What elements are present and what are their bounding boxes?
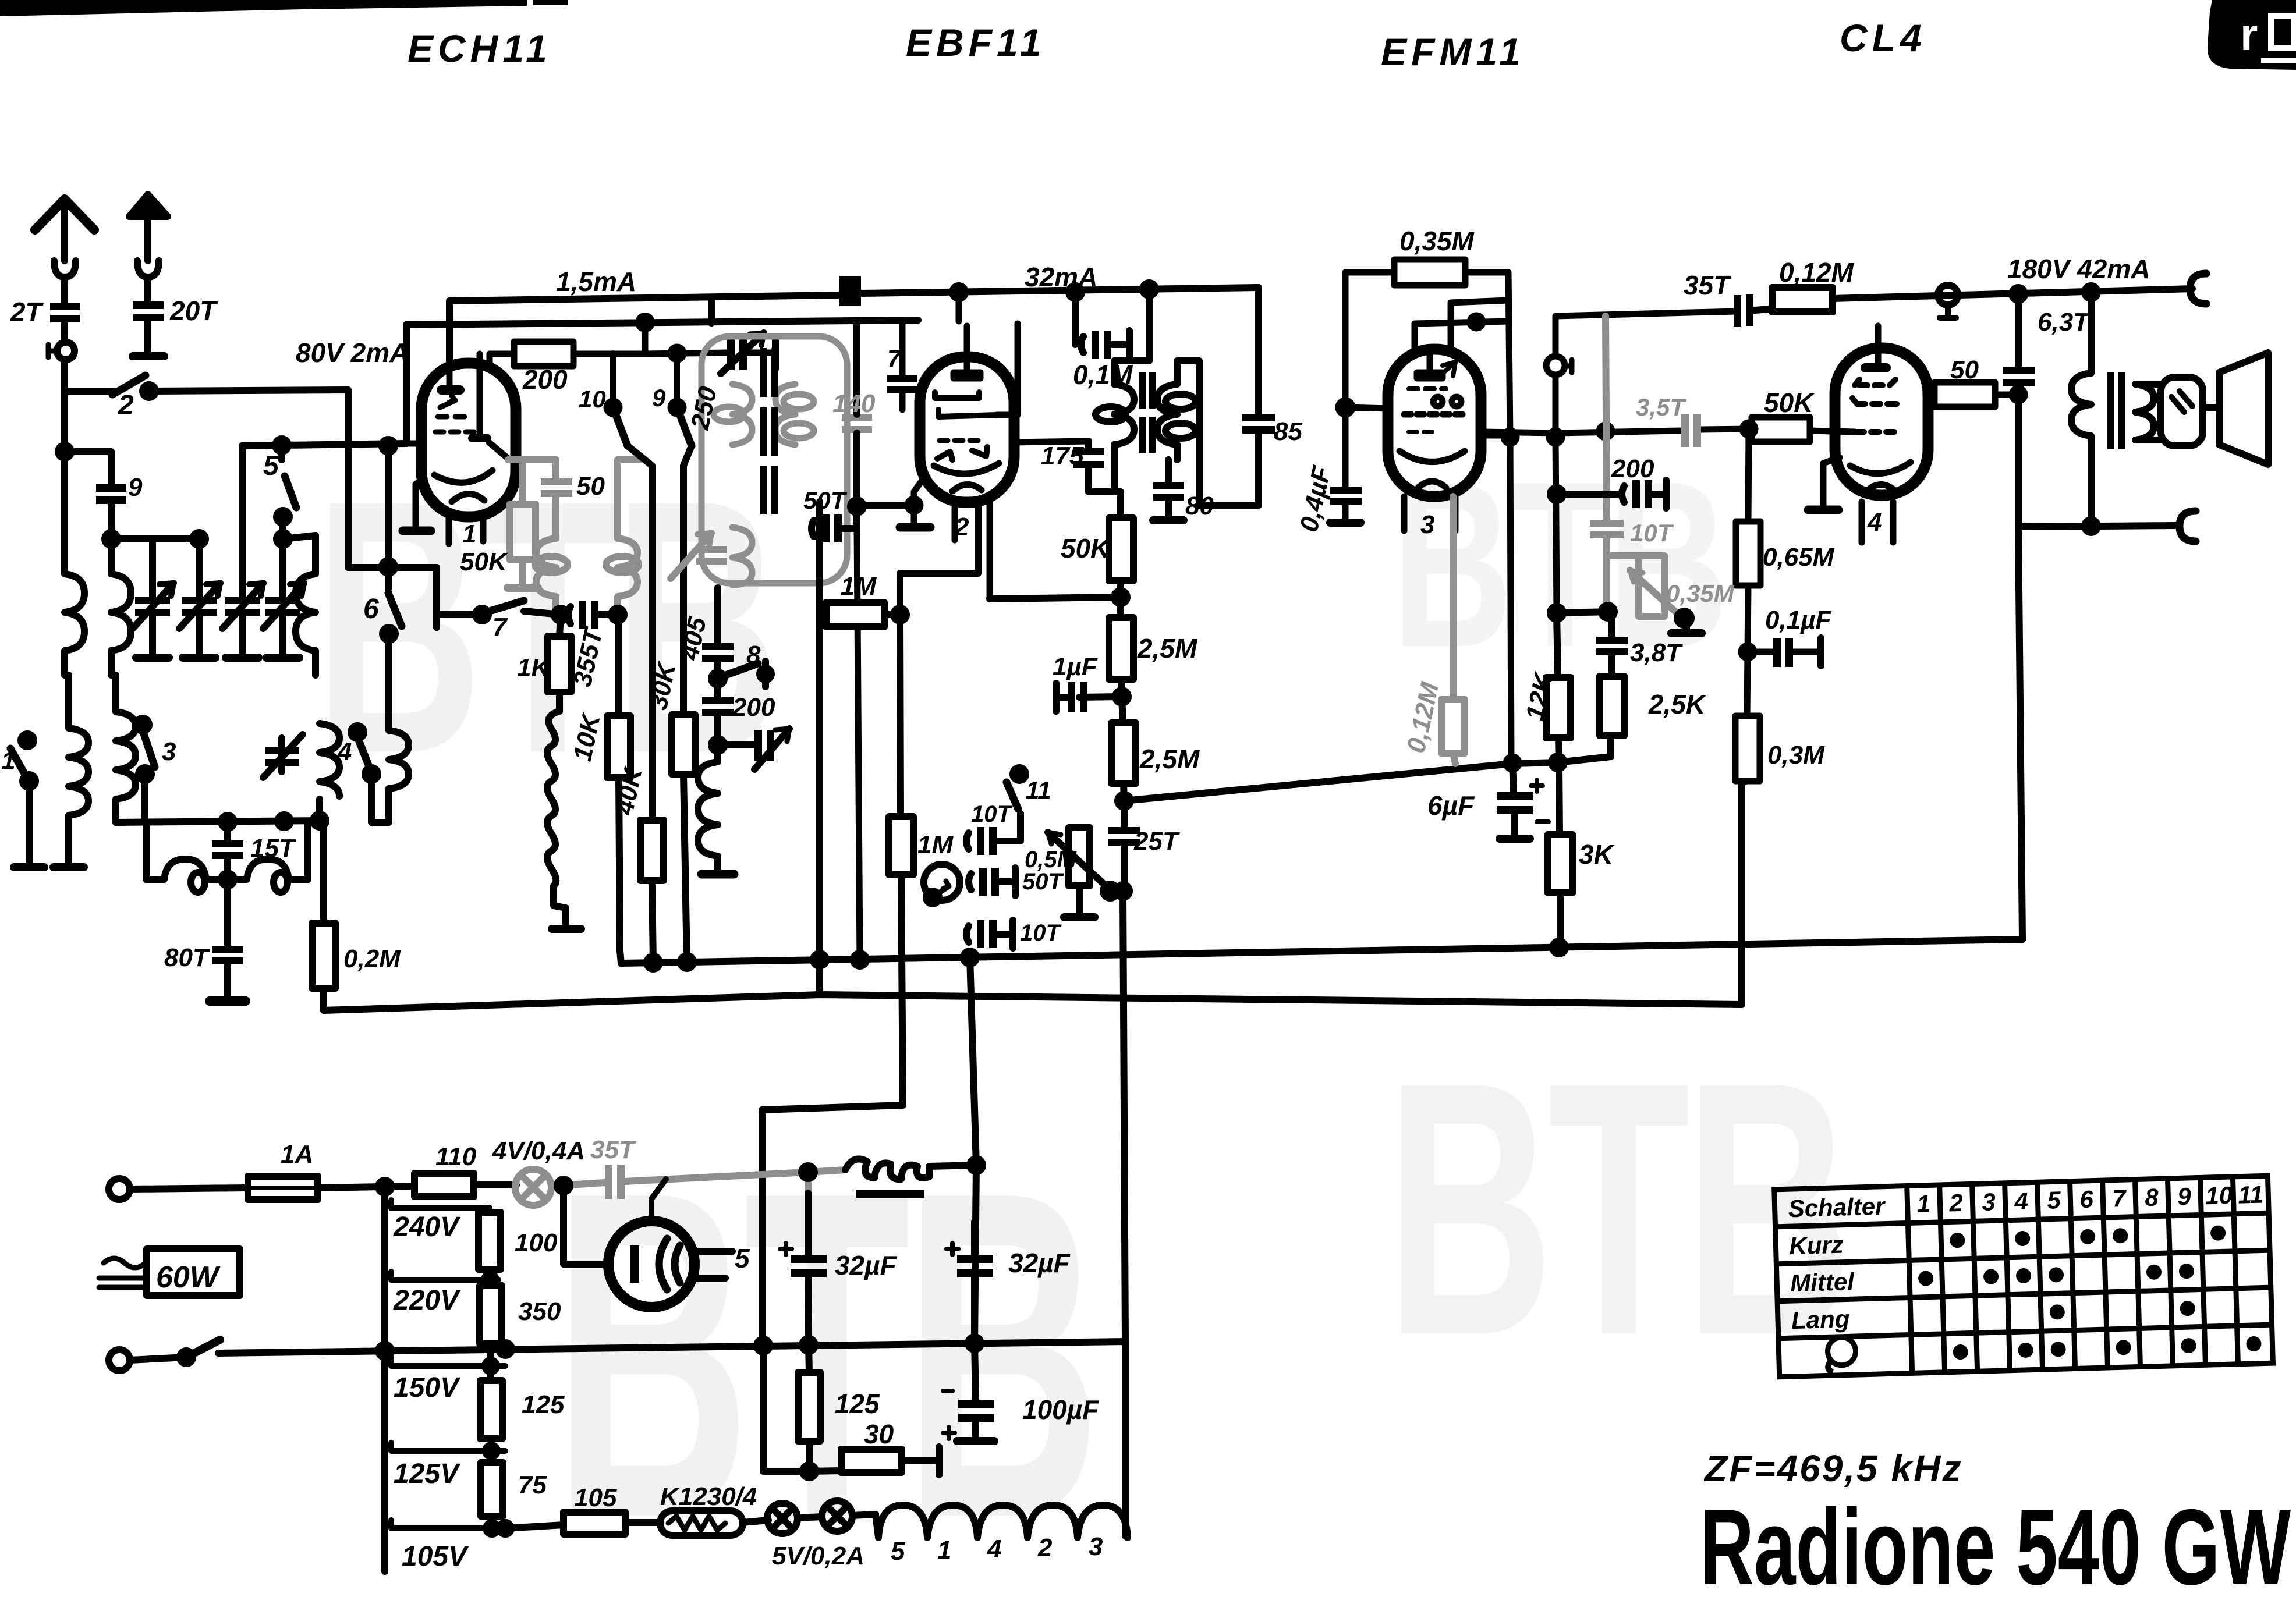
svg-text:125: 125 xyxy=(522,1390,565,1419)
switch table xyxy=(1774,1176,2273,1377)
svg-text:50: 50 xyxy=(1950,356,1979,384)
svg-text:200: 200 xyxy=(1611,455,1654,483)
cap 200 xyxy=(702,697,734,716)
svg-text:Mittel: Mittel xyxy=(1790,1268,1855,1297)
svg-text:9: 9 xyxy=(2177,1183,2192,1211)
watermark BTB left xyxy=(314,425,775,828)
svg-text:3K: 3K xyxy=(1579,839,1615,870)
variable capacitor C-v1 xyxy=(149,539,156,658)
cap 10T lower xyxy=(966,926,969,942)
resistor 200 (anode) xyxy=(490,354,514,363)
svg-text:110: 110 xyxy=(435,1142,477,1171)
drop from rail1 end to lower rail xyxy=(708,301,715,323)
coil L3 (RF) xyxy=(296,535,316,675)
svg-text:200: 200 xyxy=(732,693,775,722)
svg-text:5: 5 xyxy=(263,450,279,481)
32mA rail right end down through cap 85 xyxy=(1199,288,1259,505)
resistor 1K xyxy=(559,615,561,636)
svg-text:7: 7 xyxy=(2112,1184,2127,1212)
junction row y=1051 xyxy=(1557,612,1612,613)
cap 0,1M coupling xyxy=(1069,286,1129,359)
switch 7 with cap xyxy=(433,601,440,627)
cap 405 xyxy=(714,588,721,643)
K1230/4 zigzag component xyxy=(660,1511,743,1535)
svg-text:105V: 105V xyxy=(402,1541,469,1572)
cap 50T xyxy=(969,874,971,890)
svg-text:2: 2 xyxy=(1948,1189,1964,1217)
resistor 2,5M lower xyxy=(1122,697,1123,723)
secondary coil xyxy=(1157,384,1177,445)
3,8T cap xyxy=(1611,612,1612,637)
potentiometer 0,5M xyxy=(1069,828,1090,886)
rectifier tube xyxy=(608,1221,695,1307)
coil L4 xyxy=(69,675,88,865)
gray heater line with lamp xyxy=(515,1165,845,1205)
svg-text:240V: 240V xyxy=(393,1212,461,1243)
bottom rail xyxy=(2018,526,2177,527)
switch 1 xyxy=(21,734,34,747)
branch to cap 9 xyxy=(65,452,111,484)
tube CL4 envelope xyxy=(1835,348,1928,495)
detector/volume block xyxy=(762,502,1117,1345)
svg-text:85: 85 xyxy=(1274,417,1302,446)
svg-text:11: 11 xyxy=(2238,1180,2264,1208)
1M horizontal resistor xyxy=(820,611,826,618)
svg-text:10T: 10T xyxy=(1630,519,1674,547)
trimmer cap at padder xyxy=(645,353,727,354)
test point connector xyxy=(1556,311,1736,356)
svg-text:0,2M: 0,2M xyxy=(343,945,401,973)
resistor 75 xyxy=(481,1463,503,1516)
svg-text:ZF=469,5 kHz: ZF=469,5 kHz xyxy=(1703,1447,1962,1489)
cap 25T xyxy=(1121,801,1128,827)
cathode ground xyxy=(1823,457,1840,505)
svg-text:1: 1 xyxy=(1916,1190,1931,1218)
svg-text:105: 105 xyxy=(574,1484,617,1512)
resistor 30 xyxy=(763,1345,841,1471)
grid from 50K xyxy=(1810,431,1855,432)
svg-text:1: 1 xyxy=(1,747,15,775)
svg-text:2T: 2T xyxy=(10,297,44,327)
svg-text:3: 3 xyxy=(1982,1188,1996,1216)
trimmer near L6 xyxy=(278,738,285,772)
svg-text:220V: 220V xyxy=(393,1285,461,1316)
svg-text:2,5K: 2,5K xyxy=(1648,689,1707,719)
svg-text:4V/0,4A: 4V/0,4A xyxy=(492,1137,585,1165)
pins xyxy=(1859,502,1865,542)
svg-text:140: 140 xyxy=(832,389,876,418)
svg-text:3,8T: 3,8T xyxy=(1630,638,1683,667)
svg-text:K1230/4: K1230/4 xyxy=(660,1482,757,1511)
svg-text:2: 2 xyxy=(118,390,134,421)
svg-text:8: 8 xyxy=(746,641,761,669)
core xyxy=(2107,372,2125,449)
resistor 110 xyxy=(414,1173,474,1197)
ECH11 internals xyxy=(447,363,453,385)
meter jack on rail xyxy=(1938,285,1958,305)
svg-text:35T: 35T xyxy=(1684,270,1732,300)
svg-text:4: 4 xyxy=(1867,508,1882,537)
0,2M return line xyxy=(324,995,1742,1010)
cap 200 xyxy=(1550,488,1563,501)
svg-text:200: 200 xyxy=(522,364,568,395)
svg-text:100µF: 100µF xyxy=(1022,1394,1100,1425)
antenna A2 (earth/roof) xyxy=(129,194,168,217)
junction xyxy=(58,445,71,458)
tube EFM11 envelope xyxy=(1388,349,1481,496)
svg-text:2,5M: 2,5M xyxy=(1139,744,1200,774)
svg-text:EFM11: EFM11 xyxy=(1381,30,1525,73)
switch 8 xyxy=(722,663,758,676)
branch to rectifier xyxy=(564,1185,609,1264)
svg-text:50T: 50T xyxy=(1022,869,1064,895)
tube EBF11 envelope xyxy=(920,357,1014,502)
svg-text:5V/0,2A: 5V/0,2A xyxy=(772,1542,864,1570)
svg-text:0,3M: 0,3M xyxy=(1767,741,1825,769)
B+ bottom bus xyxy=(218,1342,1125,1353)
svg-text:10T: 10T xyxy=(971,801,1013,827)
gray riser handled elsewhere; black segment to 50K xyxy=(1700,429,1752,430)
scan top black bar xyxy=(0,0,527,16)
svg-text:50: 50 xyxy=(576,472,605,501)
C hook terminal bottom xyxy=(2180,511,2196,541)
svg-text:0,1µF: 0,1µF xyxy=(1765,606,1832,634)
plate rail to CL4 xyxy=(1481,432,1557,433)
jack circle xyxy=(924,864,960,900)
IF transformer 2 (black) xyxy=(1073,289,1199,520)
cap 15T xyxy=(224,822,231,840)
antenna A1 xyxy=(35,199,94,230)
svg-text:0,35M: 0,35M xyxy=(1666,580,1735,607)
svg-text:35T: 35T xyxy=(590,1135,636,1164)
coil L1 xyxy=(65,452,84,675)
svg-text:7: 7 xyxy=(887,345,902,372)
svg-text:1A: 1A xyxy=(281,1140,313,1169)
svg-text:60W: 60W xyxy=(156,1261,221,1294)
top rail 180V xyxy=(1754,309,1772,310)
ground under EBF11 xyxy=(914,482,921,524)
fuse 1A xyxy=(248,1176,318,1200)
6uF electrolytic xyxy=(1512,763,1514,792)
CL4 internals xyxy=(1875,326,1882,363)
svg-text:1M: 1M xyxy=(841,572,877,601)
svg-text:4: 4 xyxy=(987,1535,1001,1563)
value labels (black) xyxy=(1,226,2150,1572)
svg-text:6µF: 6µF xyxy=(1427,790,1475,821)
iron core block on rail xyxy=(839,276,861,306)
gray riser from top rail down xyxy=(1606,316,1607,522)
switch 2 xyxy=(65,388,114,395)
resistor 40K xyxy=(628,446,652,820)
svg-text:6: 6 xyxy=(2079,1186,2094,1213)
svg-text:11: 11 xyxy=(1026,776,1051,804)
resistor 350 xyxy=(480,1286,502,1344)
cap 175 xyxy=(1085,441,1092,447)
svg-text:10: 10 xyxy=(2205,1181,2233,1209)
coil L7 right xyxy=(389,730,409,789)
coil L5 with switch 3 xyxy=(116,675,136,822)
svg-text:80T: 80T xyxy=(164,943,210,972)
coil L2 xyxy=(111,539,131,675)
svg-text:r: r xyxy=(2240,9,2258,60)
core bars xyxy=(1139,372,1156,453)
resistor 10K xyxy=(615,615,622,716)
gray cap 3,5T on plate rail xyxy=(1681,414,1701,447)
secondary xyxy=(2135,384,2154,440)
gray pot 0,35M xyxy=(1639,556,1664,616)
2,5K resistor xyxy=(1600,676,1624,736)
switch 11 xyxy=(1013,768,1026,780)
speaker coil box xyxy=(2161,377,2203,446)
svg-text:32µF: 32µF xyxy=(1008,1248,1071,1278)
svg-text:2: 2 xyxy=(954,513,969,541)
coil 10K spring below 1K xyxy=(547,711,566,925)
cap 80 to ground xyxy=(1165,460,1172,484)
cap 10T first xyxy=(966,833,969,849)
svg-text:30: 30 xyxy=(864,1419,894,1449)
heater chain humps xyxy=(876,1505,1128,1538)
svg-text:CL4: CL4 xyxy=(1840,16,1926,59)
svg-text:9: 9 xyxy=(128,473,143,502)
ground under ECH11 xyxy=(416,478,424,527)
middle column resistors xyxy=(607,446,789,964)
50K resistor xyxy=(1117,492,1124,518)
cap 7 xyxy=(899,322,906,375)
svg-text:9: 9 xyxy=(652,384,666,411)
oscillator bus xyxy=(116,821,324,822)
capacitor 85 xyxy=(1242,414,1275,434)
screen exit up xyxy=(997,324,1018,415)
0,65M resistor xyxy=(1748,429,1749,521)
switch 9 xyxy=(671,401,683,414)
svg-text:50K: 50K xyxy=(1061,533,1111,563)
watermark BTB right xyxy=(1386,1007,1847,1410)
svg-text:125: 125 xyxy=(835,1389,880,1419)
rail 1,5mA xyxy=(449,295,839,363)
EFM11 internals xyxy=(1427,349,1433,372)
svg-text:7: 7 xyxy=(492,613,508,641)
rail 2 (lower) xyxy=(406,320,918,325)
table contact dots xyxy=(1917,1225,2262,1361)
svg-text:3: 3 xyxy=(1420,510,1434,539)
speaker horn xyxy=(2203,353,2268,464)
svg-text:2: 2 xyxy=(1037,1534,1053,1562)
gray chain near EFM11 xyxy=(1590,316,1701,618)
svg-text:180V 42mA: 180V 42mA xyxy=(2007,254,2150,284)
svg-text:1µF: 1µF xyxy=(1053,652,1098,681)
grid top connections xyxy=(1415,321,1508,349)
right riser to output rail xyxy=(2018,527,2022,939)
svg-text:350: 350 xyxy=(518,1297,561,1326)
12K resistor xyxy=(1557,613,1558,677)
riser 0,3M chain xyxy=(1738,783,1745,1005)
svg-text:50K: 50K xyxy=(1764,388,1815,418)
svg-text:1: 1 xyxy=(462,520,476,548)
C hook terminal top xyxy=(2190,274,2206,304)
svg-text:150V: 150V xyxy=(394,1372,461,1403)
32uF cap 2 xyxy=(971,1222,978,1255)
cap 0,4uF xyxy=(1330,487,1362,505)
svg-text:25T: 25T xyxy=(1133,827,1180,856)
svg-text:125V: 125V xyxy=(394,1458,461,1489)
series grid cap xyxy=(568,606,571,624)
svg-text:Schalter: Schalter xyxy=(1788,1193,1887,1223)
resistor 100 xyxy=(486,1208,492,1212)
svg-text:3: 3 xyxy=(162,737,176,766)
svg-text:32µF: 32µF xyxy=(835,1250,898,1280)
32uF cap 1 xyxy=(805,1193,812,1255)
black line through gray 140 cap xyxy=(853,320,860,506)
gray IF transformer 1 xyxy=(671,336,872,585)
svg-text:Kurz: Kurz xyxy=(1789,1231,1844,1260)
AVC vertical xyxy=(816,502,823,995)
125 resistor vertical xyxy=(809,1345,809,1372)
taps xyxy=(391,1200,489,1208)
50K screen resistor + 2,5M chain xyxy=(990,492,1611,1342)
switch 5 xyxy=(278,445,285,460)
svg-text:175: 175 xyxy=(1041,442,1084,470)
pin 5 line xyxy=(695,1251,732,1278)
svg-text:ECH11: ECH11 xyxy=(408,27,552,70)
switch 6 xyxy=(385,446,392,589)
table row/column labels xyxy=(1788,1180,2267,1334)
svg-text:75: 75 xyxy=(518,1471,547,1499)
svg-text:50T: 50T xyxy=(803,487,848,514)
svg-text:50K: 50K xyxy=(460,548,509,576)
svg-text:100: 100 xyxy=(515,1229,558,1257)
mains terminal top xyxy=(109,1179,130,1200)
svg-text:EBF11: EBF11 xyxy=(906,21,1046,64)
svg-text:Radione 540 GW: Radione 540 GW xyxy=(1700,1488,2291,1604)
EBF11 internals xyxy=(964,357,970,372)
line to EFM grid xyxy=(1124,735,1611,801)
plate line right xyxy=(1481,432,1510,439)
svg-text:8: 8 xyxy=(2145,1183,2159,1211)
svg-text:10T: 10T xyxy=(1020,920,1062,946)
gray 0,12M resistor with rot label xyxy=(1450,496,1457,700)
svg-text:5: 5 xyxy=(891,1537,905,1566)
svg-text:0,65M: 0,65M xyxy=(1763,543,1835,572)
top cap to rail xyxy=(964,326,970,357)
svg-text:15T: 15T xyxy=(250,834,296,863)
60W box xyxy=(99,1258,146,1287)
output transformer primary riser xyxy=(2088,292,2095,373)
svg-text:80V 2mA: 80V 2mA xyxy=(296,338,409,368)
svg-text:1M: 1M xyxy=(917,831,954,859)
selector ladder vertical xyxy=(381,1187,388,1571)
coil L6 pair with switch 4 xyxy=(320,723,339,821)
link coils small xyxy=(146,822,308,879)
watermark BTB middle-bottom xyxy=(553,1095,1094,1604)
svg-text:3: 3 xyxy=(1089,1532,1103,1561)
trimmer right xyxy=(718,741,754,748)
0,3M resistor xyxy=(1747,652,1748,716)
grid rail y=766 xyxy=(242,443,406,446)
resistor 0,2M xyxy=(320,821,327,923)
pins xyxy=(1401,496,1408,531)
riser 3467 and 6,3T cap xyxy=(2015,294,2022,367)
svg-text:4: 4 xyxy=(2014,1187,2029,1215)
svg-text:0,1M: 0,1M xyxy=(1073,360,1133,390)
variable capacitor C-v2 xyxy=(196,539,203,658)
0,1uF branch xyxy=(1748,649,1773,655)
svg-text:Lang: Lang xyxy=(1791,1305,1850,1334)
black bits of pot bottom xyxy=(1677,611,1691,625)
100uF cap xyxy=(975,1343,976,1400)
vertical bus to choke junction xyxy=(970,957,976,1165)
svg-text:1,5mA: 1,5mA xyxy=(556,267,636,297)
plate 50 resistor xyxy=(1928,392,1934,398)
capacitor 9 xyxy=(96,484,126,504)
primary coil xyxy=(1114,384,1134,445)
watermark BTB top-right area xyxy=(1391,432,1724,696)
AVC/ground bus xyxy=(621,939,2022,963)
resistor 125a xyxy=(487,1366,494,1381)
svg-text:2,5M: 2,5M xyxy=(1137,633,1198,663)
svg-text:3,5T: 3,5T xyxy=(1636,393,1686,421)
pins below xyxy=(987,502,993,599)
lamp 4V xyxy=(515,1182,517,1188)
cap 80T to ground xyxy=(224,879,231,946)
svg-text:4: 4 xyxy=(337,737,352,766)
svg-text:1: 1 xyxy=(937,1536,951,1564)
svg-text:5: 5 xyxy=(735,1243,750,1273)
wire from switch2 to osc grid xyxy=(149,390,437,601)
svg-text:80: 80 xyxy=(1185,492,1214,520)
105 resistor bottom xyxy=(505,1525,564,1528)
1M vertical resistor xyxy=(900,615,901,817)
logo box top right xyxy=(2208,0,2296,70)
connector circle xyxy=(57,342,75,360)
resistor 0,35M top loop xyxy=(1345,272,1394,487)
variable capacitor C-v3 xyxy=(239,446,246,658)
50T coupling under EBF xyxy=(812,520,814,537)
svg-text:5: 5 xyxy=(2047,1186,2061,1214)
svg-text:32mA: 32mA xyxy=(1025,262,1097,292)
resistor 2,5M upper xyxy=(1109,618,1133,679)
ECH11 grid line from left xyxy=(406,441,421,447)
cap 1uF xyxy=(1079,697,1122,697)
plate to IF transformer 2 xyxy=(1014,441,1089,442)
lamp 5V/0,2A x2 xyxy=(767,1503,798,1534)
capacitor 2T xyxy=(50,303,80,322)
svg-text:6: 6 xyxy=(363,594,379,624)
svg-text:0,12M: 0,12M xyxy=(1779,257,1855,288)
resistor 30K xyxy=(683,446,692,715)
rail 32mA xyxy=(861,288,1259,293)
diode return elbow xyxy=(900,502,978,615)
svg-text:0,35M: 0,35M xyxy=(1399,226,1475,256)
svg-text:6,3T: 6,3T xyxy=(2038,308,2091,336)
switch 10 xyxy=(607,401,619,414)
capacitor 20T xyxy=(133,301,164,321)
svg-text:20T: 20T xyxy=(169,296,218,326)
svg-text:10: 10 xyxy=(579,385,606,413)
3K resistor xyxy=(1559,762,1560,835)
coil below xyxy=(698,762,718,871)
choke xyxy=(845,1159,976,1179)
mains switch + lower terminal xyxy=(109,1350,130,1371)
variable capacitor C-v4 xyxy=(279,539,286,658)
svg-text:1K: 1K xyxy=(517,654,551,682)
gray oscillator transformer + 50/50K xyxy=(508,460,640,610)
tube ECH11 envelope xyxy=(421,363,516,517)
